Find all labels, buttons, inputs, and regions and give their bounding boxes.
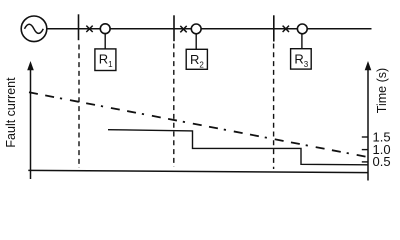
svg-text:0.5: 0.5 bbox=[373, 154, 391, 169]
svg-text:Fault current: Fault current bbox=[4, 77, 18, 148]
svg-text:Time (s): Time (s) bbox=[375, 68, 389, 113]
